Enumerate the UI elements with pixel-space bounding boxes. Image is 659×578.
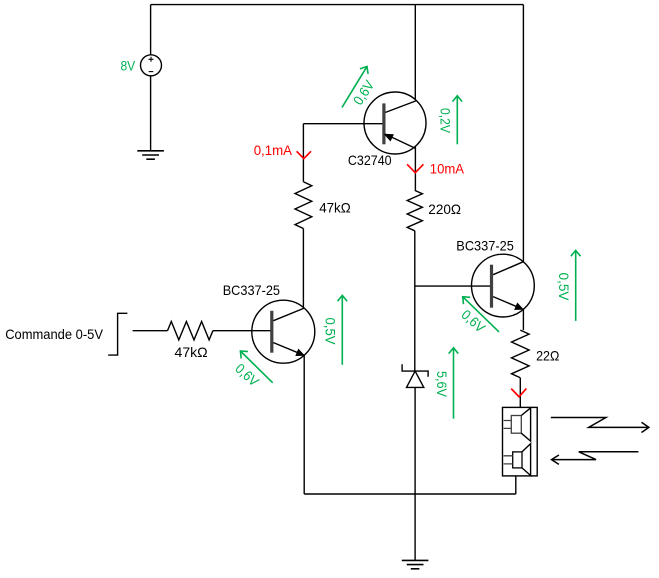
svg-text:0,2V: 0,2V bbox=[438, 108, 454, 134]
svg-text:0,1mA: 0,1mA bbox=[254, 142, 293, 158]
svg-text:22Ω: 22Ω bbox=[536, 347, 559, 363]
svg-text:BC337-25: BC337-25 bbox=[223, 282, 280, 298]
svg-text:0,6V: 0,6V bbox=[232, 360, 262, 390]
svg-text:0,5V: 0,5V bbox=[556, 273, 572, 302]
svg-text:Commande 0-5V: Commande 0-5V bbox=[5, 326, 103, 342]
svg-text:5,6V: 5,6V bbox=[434, 371, 450, 398]
svg-text:47kΩ: 47kΩ bbox=[175, 344, 208, 360]
svg-text:220Ω: 220Ω bbox=[428, 201, 461, 217]
svg-text:47kΩ: 47kΩ bbox=[319, 199, 351, 215]
svg-text:0,6V: 0,6V bbox=[350, 77, 378, 108]
svg-text:0,5V: 0,5V bbox=[323, 318, 339, 346]
svg-text:BC337-25: BC337-25 bbox=[456, 237, 514, 253]
svg-text:8V: 8V bbox=[121, 57, 136, 73]
svg-text:10mA: 10mA bbox=[430, 161, 465, 177]
svg-text:C32740: C32740 bbox=[348, 152, 392, 168]
